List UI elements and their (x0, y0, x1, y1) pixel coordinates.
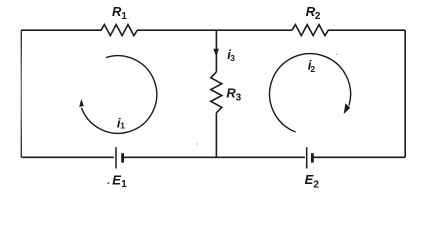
svg-text:2: 2 (315, 11, 321, 22)
svg-text:2: 2 (313, 179, 319, 190)
scan speck near i2 arc top (336, 54, 337, 55)
label R3 (226, 85, 241, 103)
label E1 (112, 173, 127, 190)
wire left vertical (20, 30, 22, 157)
mesh loop arrow i1 head (79, 99, 84, 107)
wire bottom left segment (21, 156, 114, 158)
svg-text:3: 3 (236, 92, 242, 103)
wire right vertical (404, 30, 406, 157)
resistor R2 (292, 25, 405, 36)
scan speck near E1 (107, 182, 109, 184)
resistor R1 (21, 25, 137, 36)
label R2 (306, 4, 321, 22)
battery E2 short plate (311, 153, 314, 162)
scan speck near bottom junction (196, 143, 198, 145)
mesh loop arrow i1 arc (82, 56, 157, 134)
current arrow i3 head (213, 49, 219, 57)
battery E1 short plate (121, 153, 124, 162)
label R1 (112, 4, 127, 22)
svg-text:E: E (112, 173, 121, 188)
label E2 (305, 172, 320, 190)
battery E1 long plate (115, 147, 117, 168)
svg-text:E: E (305, 172, 314, 187)
wire top middle segment (137, 29, 292, 31)
mesh loop arrow i2 head (344, 103, 351, 114)
svg-text:1: 1 (120, 121, 125, 131)
svg-text:1: 1 (121, 179, 127, 190)
mesh loop arrow i2 arc (270, 54, 351, 132)
label i1 (117, 115, 125, 130)
wire middle branch upper (215, 30, 217, 72)
battery E2 long plate (306, 147, 308, 168)
svg-text:1: 1 (121, 11, 127, 22)
wire bottom right segment (313, 156, 405, 158)
label i3 (227, 47, 235, 63)
svg-text:2: 2 (310, 64, 315, 74)
svg-text:3: 3 (230, 53, 235, 63)
wire bottom middle segment (123, 156, 305, 158)
label i2 (308, 58, 316, 74)
wire middle branch lower (215, 113, 217, 158)
resistor R3 (211, 72, 222, 113)
battery E2 (307, 147, 313, 168)
battery E1 (116, 147, 123, 168)
